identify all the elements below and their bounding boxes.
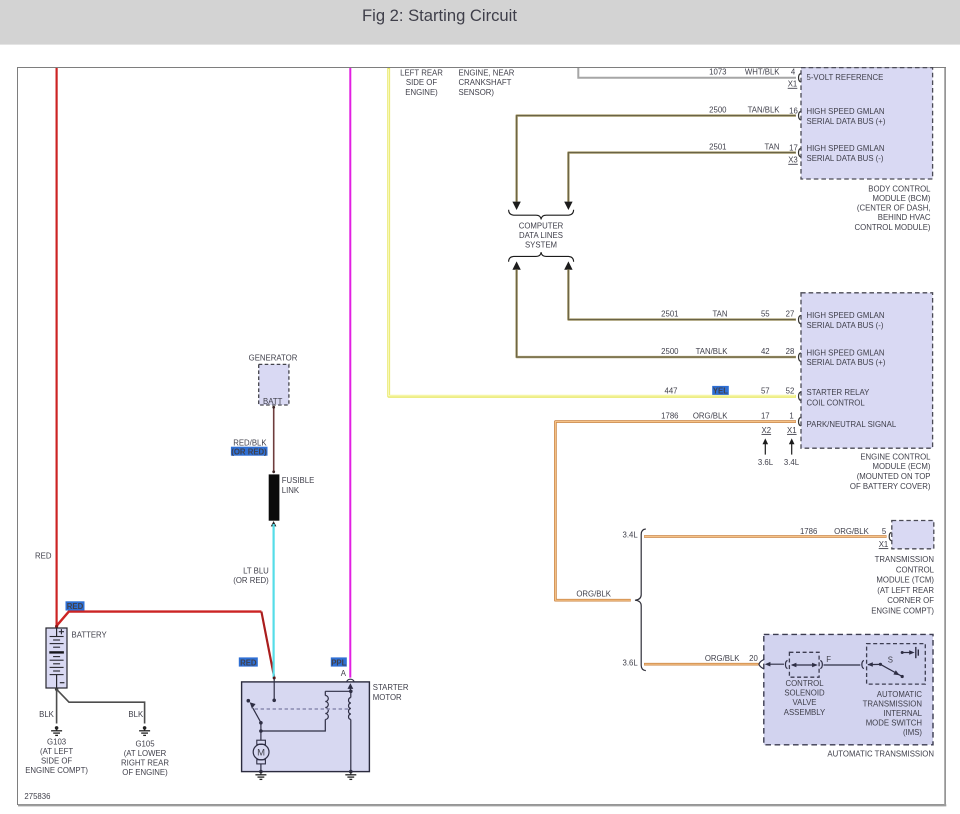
connector pin 27 (ECM) — [799, 315, 801, 324]
label A (starter terminal) — [341, 669, 347, 678]
label 3.6L — [758, 458, 774, 467]
svg-text:COIL CONTROL: COIL CONTROL — [807, 399, 866, 408]
node data bus brace (upper) — [509, 210, 574, 220]
svg-text:ORG/BLK: ORG/BLK — [834, 527, 869, 536]
svg-text:X3: X3 — [788, 156, 798, 165]
label GENERATOR — [249, 353, 298, 362]
svg-text:X1: X1 — [879, 540, 889, 549]
svg-text:HIGH SPEED GMLAN: HIGH SPEED GMLAN — [807, 107, 885, 116]
connector at IMS — [862, 660, 864, 668]
wire hold-in winding to ground — [349, 720, 353, 774]
svg-text:17: 17 — [789, 144, 798, 153]
svg-text:PARK/NEUTRAL SIGNAL: PARK/NEUTRAL SIGNAL — [807, 420, 897, 429]
svg-text:M: M — [257, 747, 265, 758]
svg-text:GENERATOR: GENERATOR — [249, 353, 298, 362]
svg-text:3.4L: 3.4L — [784, 458, 800, 467]
svg-text:447: 447 — [664, 386, 677, 395]
svg-text:CONTROL: CONTROL — [785, 679, 824, 688]
wire coil tops junction — [325, 690, 352, 694]
svg-text:TAN: TAN — [712, 310, 727, 319]
label COMPUTER DATA LINES SYSTEM — [519, 221, 564, 249]
svg-text:DATA LINES: DATA LINES — [519, 231, 563, 240]
label circuit 447 YEL pins 57 52 (YEL highlighted) — [664, 386, 794, 396]
node data bus arrow down (2501) — [564, 202, 572, 210]
svg-text:275836: 275836 — [24, 792, 50, 801]
solenoid plunger linkage (dashed) — [255, 708, 349, 710]
connector pin 20 (transmission) — [759, 660, 764, 669]
svg-text:INTERNAL: INTERNAL — [883, 709, 922, 718]
svg-text:17: 17 — [761, 412, 770, 421]
label PARK/NEUTRAL SIGNAL — [807, 420, 897, 429]
svg-text:A: A — [341, 669, 347, 678]
svg-text:ASSEMBLY: ASSEMBLY — [784, 708, 826, 717]
svg-text:CORNER OF: CORNER OF — [887, 596, 934, 605]
ground (starter motor armature) — [255, 772, 266, 780]
label BLK (right) — [128, 710, 144, 719]
label AUTOMATIC TRANSMISSION INTERNAL MODE SWITCH (IMS) — [863, 690, 923, 737]
svg-text:WHT/BLK: WHT/BLK — [745, 68, 780, 77]
svg-text:2501: 2501 — [709, 143, 726, 152]
svg-text:3.6L: 3.6L — [623, 659, 639, 668]
svg-text:1786: 1786 — [661, 412, 678, 421]
svg-text:G105: G105 — [135, 739, 155, 748]
node data bus brace (lower) — [509, 252, 574, 262]
svg-text:(MOUNTED ON TOP: (MOUNTED ON TOP — [857, 472, 931, 481]
label RED (highlighted) at starter — [239, 657, 258, 667]
svg-text:2500: 2500 — [661, 347, 679, 356]
svg-text:TRANSMISSION: TRANSMISSION — [863, 700, 922, 709]
node battery negative junction — [55, 688, 58, 691]
svg-text:RED/BLK: RED/BLK — [233, 438, 267, 447]
svg-text:HIGH SPEED GMLAN: HIGH SPEED GMLAN — [807, 144, 885, 153]
label HIGH SPEED GMLAN SERIAL DATA BUS (+) — [807, 349, 886, 368]
svg-text:TAN: TAN — [764, 143, 779, 152]
svg-text:TAN/BLK: TAN/BLK — [748, 106, 781, 115]
connector pin 52 (ECM) — [799, 392, 801, 401]
label ORG/BLK at split — [576, 590, 611, 599]
svg-text:BLK: BLK — [128, 710, 144, 719]
node ECM X1 connector arrow (3.4L) — [789, 438, 795, 454]
svg-text:RIGHT REAR: RIGHT REAR — [121, 759, 169, 768]
switch solenoid contact (starter) — [247, 699, 263, 725]
svg-text:CONTROL: CONTROL — [896, 565, 935, 574]
svg-text:ORG/BLK: ORG/BLK — [705, 654, 740, 663]
body control module BCM (dashed box) — [801, 68, 933, 179]
svg-text:16: 16 — [789, 107, 798, 116]
svg-text:3.6L: 3.6L — [758, 458, 774, 467]
connector F (right of solenoid box) — [820, 660, 822, 668]
transmission control module TCM (dashed box) — [892, 521, 934, 549]
label HIGH SPEED GMLAN SERIAL DATA BUS (-) — [807, 311, 885, 330]
svg-text:LT BLU: LT BLU — [243, 567, 269, 576]
node terminal A arrow up — [348, 683, 354, 691]
wire TAN 2501 to BCM pin 17 — [568, 153, 796, 202]
svg-text:HIGH SPEED GMLAN: HIGH SPEED GMLAN — [807, 349, 885, 358]
ground (starter solenoid winding) — [345, 772, 356, 780]
svg-text:ORG/BLK: ORG/BLK — [576, 590, 611, 599]
label HIGH SPEED GMLAN SERIAL DATA BUS (-) — [807, 144, 885, 163]
node battery positive junction — [55, 625, 58, 628]
svg-text:ENGINE COMPT): ENGINE COMPT) — [25, 766, 88, 775]
connector pin 28 (ECM) — [799, 353, 801, 362]
node data bus arrow up (2501 lower) — [564, 261, 572, 269]
wire WHT/BLK 1073 to BCM — [578, 68, 796, 78]
label ENGINE, NEAR CRANKSHAFT SENSOR) — [459, 69, 515, 97]
switch S (IMS blade) — [879, 663, 904, 678]
battery B1 — [46, 628, 67, 688]
svg-text:(OR RED): (OR RED) — [231, 447, 267, 456]
wire RED battery feed (vertical) — [55, 68, 57, 627]
svg-text:(IMS): (IMS) — [903, 728, 922, 737]
wire junction to pull-in winding — [261, 720, 325, 732]
label PPL (highlighted) — [331, 657, 347, 667]
svg-text:VALVE: VALVE — [793, 698, 817, 707]
label circuit 1786 ORG/BLK pin 5 X1 (TCM) — [800, 527, 888, 549]
label RED (wire color) — [35, 552, 52, 561]
connector pin 4 (BCM) — [799, 73, 801, 82]
label TRANSMISSION CONTROL MODULE (TCM) (AT LEFT REAR CORNER OF ENGINE COMPT) — [871, 555, 934, 616]
svg-text:28: 28 — [786, 347, 795, 356]
label circuit 2500 TAN/BLK pin 16 — [709, 106, 798, 116]
wire RED/BLK generator to fusible link — [272, 406, 275, 473]
svg-text:SIDE OF: SIDE OF — [41, 757, 72, 766]
automatic transmission (outer dashed box) — [764, 634, 933, 744]
wire pin 20 to solenoid connector (arrow left) — [765, 662, 784, 667]
label circuit ORG/BLK pin 20 — [705, 654, 759, 663]
svg-text:20: 20 — [749, 654, 758, 663]
svg-text:2500: 2500 — [709, 106, 727, 115]
svg-text:YEL: YEL — [713, 386, 728, 395]
svg-text:BATT: BATT — [263, 397, 283, 406]
label RED/BLK — [233, 438, 267, 447]
svg-text:SERIAL DATA BUS (+): SERIAL DATA BUS (+) — [807, 358, 886, 367]
svg-text:STARTER: STARTER — [373, 683, 409, 692]
svg-text:ENGINE COMPT): ENGINE COMPT) — [871, 607, 934, 616]
svg-text:MODULE (BCM): MODULE (BCM) — [872, 194, 930, 203]
svg-text:OF BATTERY COVER): OF BATTERY COVER) — [850, 482, 931, 491]
node fusible link bottom arrow — [271, 521, 277, 526]
wire F to IMS — [824, 664, 861, 666]
svg-text:2501: 2501 — [661, 310, 678, 319]
label S — [888, 656, 893, 665]
header bar — [0, 0, 960, 45]
label ENGINE CONTROL MODULE (ECM) (MOUNTED ON TOP OF BATTERY COVER) — [850, 452, 931, 490]
label circuit 2501 TAN pins 55 27 — [661, 310, 794, 319]
svg-text:3.4L: 3.4L — [623, 531, 639, 540]
svg-text:G103: G103 — [47, 737, 66, 746]
connector at solenoid assembly — [785, 660, 787, 668]
control solenoid valve assembly (dashed box) — [789, 652, 819, 677]
svg-text:RED: RED — [240, 658, 257, 667]
svg-text:X1: X1 — [788, 80, 798, 89]
diagram number label 275836 — [24, 792, 50, 801]
wire BLK battery to G105 — [57, 689, 145, 723]
svg-text:(CENTER OF DASH,: (CENTER OF DASH, — [857, 204, 931, 213]
label HIGH SPEED GMLAN SERIAL DATA BUS (+) — [807, 107, 886, 126]
wire TAN/BLK 2500 to ECM pin 42/28 — [517, 269, 796, 357]
svg-text:S: S — [888, 656, 893, 665]
label RED (highlighted) at battery — [66, 601, 85, 611]
svg-text:1073: 1073 — [709, 68, 726, 77]
label F — [826, 655, 831, 664]
wire IMS entry (arrow left) to switch pivot — [867, 662, 880, 667]
svg-text:STARTER RELAY: STARTER RELAY — [807, 388, 871, 397]
node data bus arrow down (2500) — [512, 202, 520, 210]
label CONTROL SOLENOID VALVE ASSEMBLY — [784, 679, 826, 717]
svg-text:LEFT REAR: LEFT REAR — [400, 69, 443, 78]
wire contact to junction node — [259, 723, 263, 733]
connector pin 5 (TCM) — [889, 532, 891, 541]
connector pin 17 (BCM) — [799, 148, 801, 157]
wire LT BLU fusible link to starter — [273, 524, 275, 678]
svg-text:RED: RED — [67, 602, 84, 611]
svg-text:MOTOR: MOTOR — [373, 693, 402, 702]
label BATTERY — [72, 631, 108, 640]
label LT BLU (OR RED) — [233, 567, 269, 586]
svg-text:HIGH SPEED GMLAN: HIGH SPEED GMLAN — [807, 311, 885, 320]
svg-text:FUSIBLE: FUSIBLE — [282, 476, 315, 485]
svg-text:RED: RED — [35, 552, 52, 561]
label AUTOMATIC TRANSMISSION — [827, 750, 934, 759]
svg-text:42: 42 — [761, 347, 770, 356]
svg-text:(AT LEFT: (AT LEFT — [40, 747, 73, 756]
wire TAN 2501 to ECM pin 55/27 — [568, 269, 796, 319]
connector pin 16 (BCM) — [799, 111, 801, 120]
label (OR RED) highlighted — [231, 447, 268, 457]
label G103 (AT LEFT SIDE OF ENGINE COMPT) — [25, 737, 88, 775]
label BATT pin — [263, 397, 283, 406]
svg-text:MODULE (ECM): MODULE (ECM) — [872, 462, 930, 471]
label 3.4L branch — [623, 531, 639, 540]
svg-text:BEHIND HVAC: BEHIND HVAC — [878, 213, 931, 222]
automatic transmission internal mode switch IMS (dashed box) — [867, 644, 926, 685]
svg-text:1: 1 — [789, 412, 793, 421]
ground G103 — [51, 726, 62, 735]
wire TAN/BLK 2500 to BCM pin 16 — [517, 116, 796, 202]
solenoid pull-in winding (left coil) — [325, 691, 328, 719]
wire ORG/BLK 1786 ECM pin 17/1 — [555, 422, 796, 601]
starter motor M1 (box) — [242, 682, 370, 772]
svg-text:SIDE OF: SIDE OF — [406, 78, 437, 87]
svg-text:1786: 1786 — [800, 527, 817, 536]
svg-text:BLK: BLK — [39, 710, 55, 719]
svg-text:ORG/BLK: ORG/BLK — [693, 412, 728, 421]
label circuit 2500 TAN/BLK pins 42 28 — [661, 347, 794, 356]
svg-text:X1: X1 — [787, 426, 797, 435]
motor M armature — [253, 731, 269, 773]
svg-text:27: 27 — [786, 310, 795, 319]
svg-text:ENGINE, NEAR: ENGINE, NEAR — [459, 69, 515, 78]
svg-text:MODULE (TCM): MODULE (TCM) — [876, 576, 934, 585]
svg-text:(AT LEFT REAR: (AT LEFT REAR — [877, 586, 934, 595]
label STARTER MOTOR — [373, 683, 409, 702]
solenoid hold-in winding (right coil) — [349, 691, 351, 719]
svg-text:Fig 2: Starting Circuit: Fig 2: Starting Circuit — [362, 6, 517, 25]
node ECM X2 connector arrow (3.6L) — [763, 438, 769, 454]
svg-text:(AT LOWER: (AT LOWER — [124, 749, 167, 758]
label circuit 1073 WHT/BLK pin 4 X1 — [709, 68, 797, 89]
svg-text:ENGINE): ENGINE) — [405, 88, 438, 97]
connector pin 1 (ECM) — [799, 417, 801, 426]
svg-text:MODE SWITCH: MODE SWITCH — [866, 719, 922, 728]
svg-text:SERIAL DATA BUS (-): SERIAL DATA BUS (-) — [807, 154, 884, 163]
node red/lt-blu junction at starter terminal — [273, 677, 276, 680]
svg-text:5: 5 — [882, 527, 887, 536]
label STARTER RELAY COIL CONTROL — [807, 388, 871, 407]
wire battery input inside starter — [272, 679, 276, 703]
switch S contact (upper right) — [901, 647, 919, 658]
svg-text:SERIAL DATA BUS (-): SERIAL DATA BUS (-) — [807, 321, 884, 330]
svg-text:ENGINE CONTROL: ENGINE CONTROL — [860, 452, 931, 461]
ground G105 — [139, 726, 150, 735]
svg-text:SOLENOID: SOLENOID — [784, 689, 825, 698]
solenoid pass-through (double arrow) — [791, 663, 818, 668]
svg-text:BATTERY: BATTERY — [72, 631, 108, 640]
label LEFT REAR SIDE OF ENGINE) — [400, 69, 443, 97]
label 5-VOLT REFERENCE — [807, 73, 884, 82]
svg-text:AUTOMATIC TRANSMISSION: AUTOMATIC TRANSMISSION — [827, 750, 934, 759]
connector terminal A (arc on box edge) — [347, 679, 355, 682]
svg-text:LINK: LINK — [282, 486, 300, 495]
svg-text:SYSTEM: SYSTEM — [525, 241, 557, 250]
label FUSIBLE LINK — [282, 476, 315, 495]
svg-text:SENSOR): SENSOR) — [459, 88, 495, 97]
generator G1 (dashed box) — [259, 364, 289, 405]
svg-text:PPL: PPL — [331, 658, 346, 667]
wire BLK battery to G103 — [56, 689, 58, 723]
node wire split brace (3.4L / 3.6L) — [635, 529, 646, 671]
svg-text:CONTROL MODULE): CONTROL MODULE) — [855, 223, 931, 232]
wire YEL 447 to ECM — [389, 68, 796, 396]
wire RED battery to starter motor — [57, 612, 275, 678]
engine control module ECM (dashed box) — [801, 293, 933, 448]
node data bus arrow up (2500 lower) — [512, 261, 520, 269]
svg-text:F: F — [826, 655, 831, 664]
label circuit 2501 TAN pin 17 X3 — [709, 143, 798, 165]
label BLK (left) — [39, 710, 55, 719]
svg-text:5-VOLT REFERENCE: 5-VOLT REFERENCE — [807, 73, 884, 82]
svg-text:TRANSMISSION: TRANSMISSION — [875, 555, 934, 564]
wire ORG/BLK 1786 to TCM (3.4L) — [644, 535, 887, 538]
svg-text:AUTOMATIC: AUTOMATIC — [877, 690, 923, 699]
svg-text:(OR RED): (OR RED) — [233, 576, 269, 585]
svg-text:4: 4 — [791, 68, 796, 77]
svg-text:COMPUTER: COMPUTER — [519, 221, 564, 230]
svg-text:57: 57 — [761, 386, 770, 395]
label circuit 1786 ORG/BLK pins 17 1 X2 X1 — [661, 412, 796, 435]
wire ORG/BLK to automatic transmission (3.6L) — [644, 663, 759, 666]
label 3.4L — [784, 458, 800, 467]
svg-text:OF ENGINE): OF ENGINE) — [122, 768, 168, 777]
svg-text:SERIAL DATA BUS (+): SERIAL DATA BUS (+) — [807, 117, 886, 126]
label BODY CONTROL MODULE (BCM) (CENTER OF DASH, BEHIND HVAC CONTROL MODULE) — [855, 184, 932, 231]
svg-text:X2: X2 — [762, 426, 772, 435]
svg-text:TAN/BLK: TAN/BLK — [696, 347, 729, 356]
svg-text:52: 52 — [786, 386, 795, 395]
label G105 (AT LOWER RIGHT REAR OF ENGINE) — [121, 739, 169, 777]
svg-text:CRANKSHAFT: CRANKSHAFT — [459, 78, 512, 87]
fusible link F1 — [269, 474, 280, 520]
label 3.6L branch — [623, 659, 639, 668]
svg-text:55: 55 — [761, 310, 770, 319]
svg-text:BODY CONTROL: BODY CONTROL — [868, 184, 931, 193]
wire PPL to starter motor (vertical) — [349, 68, 351, 678]
